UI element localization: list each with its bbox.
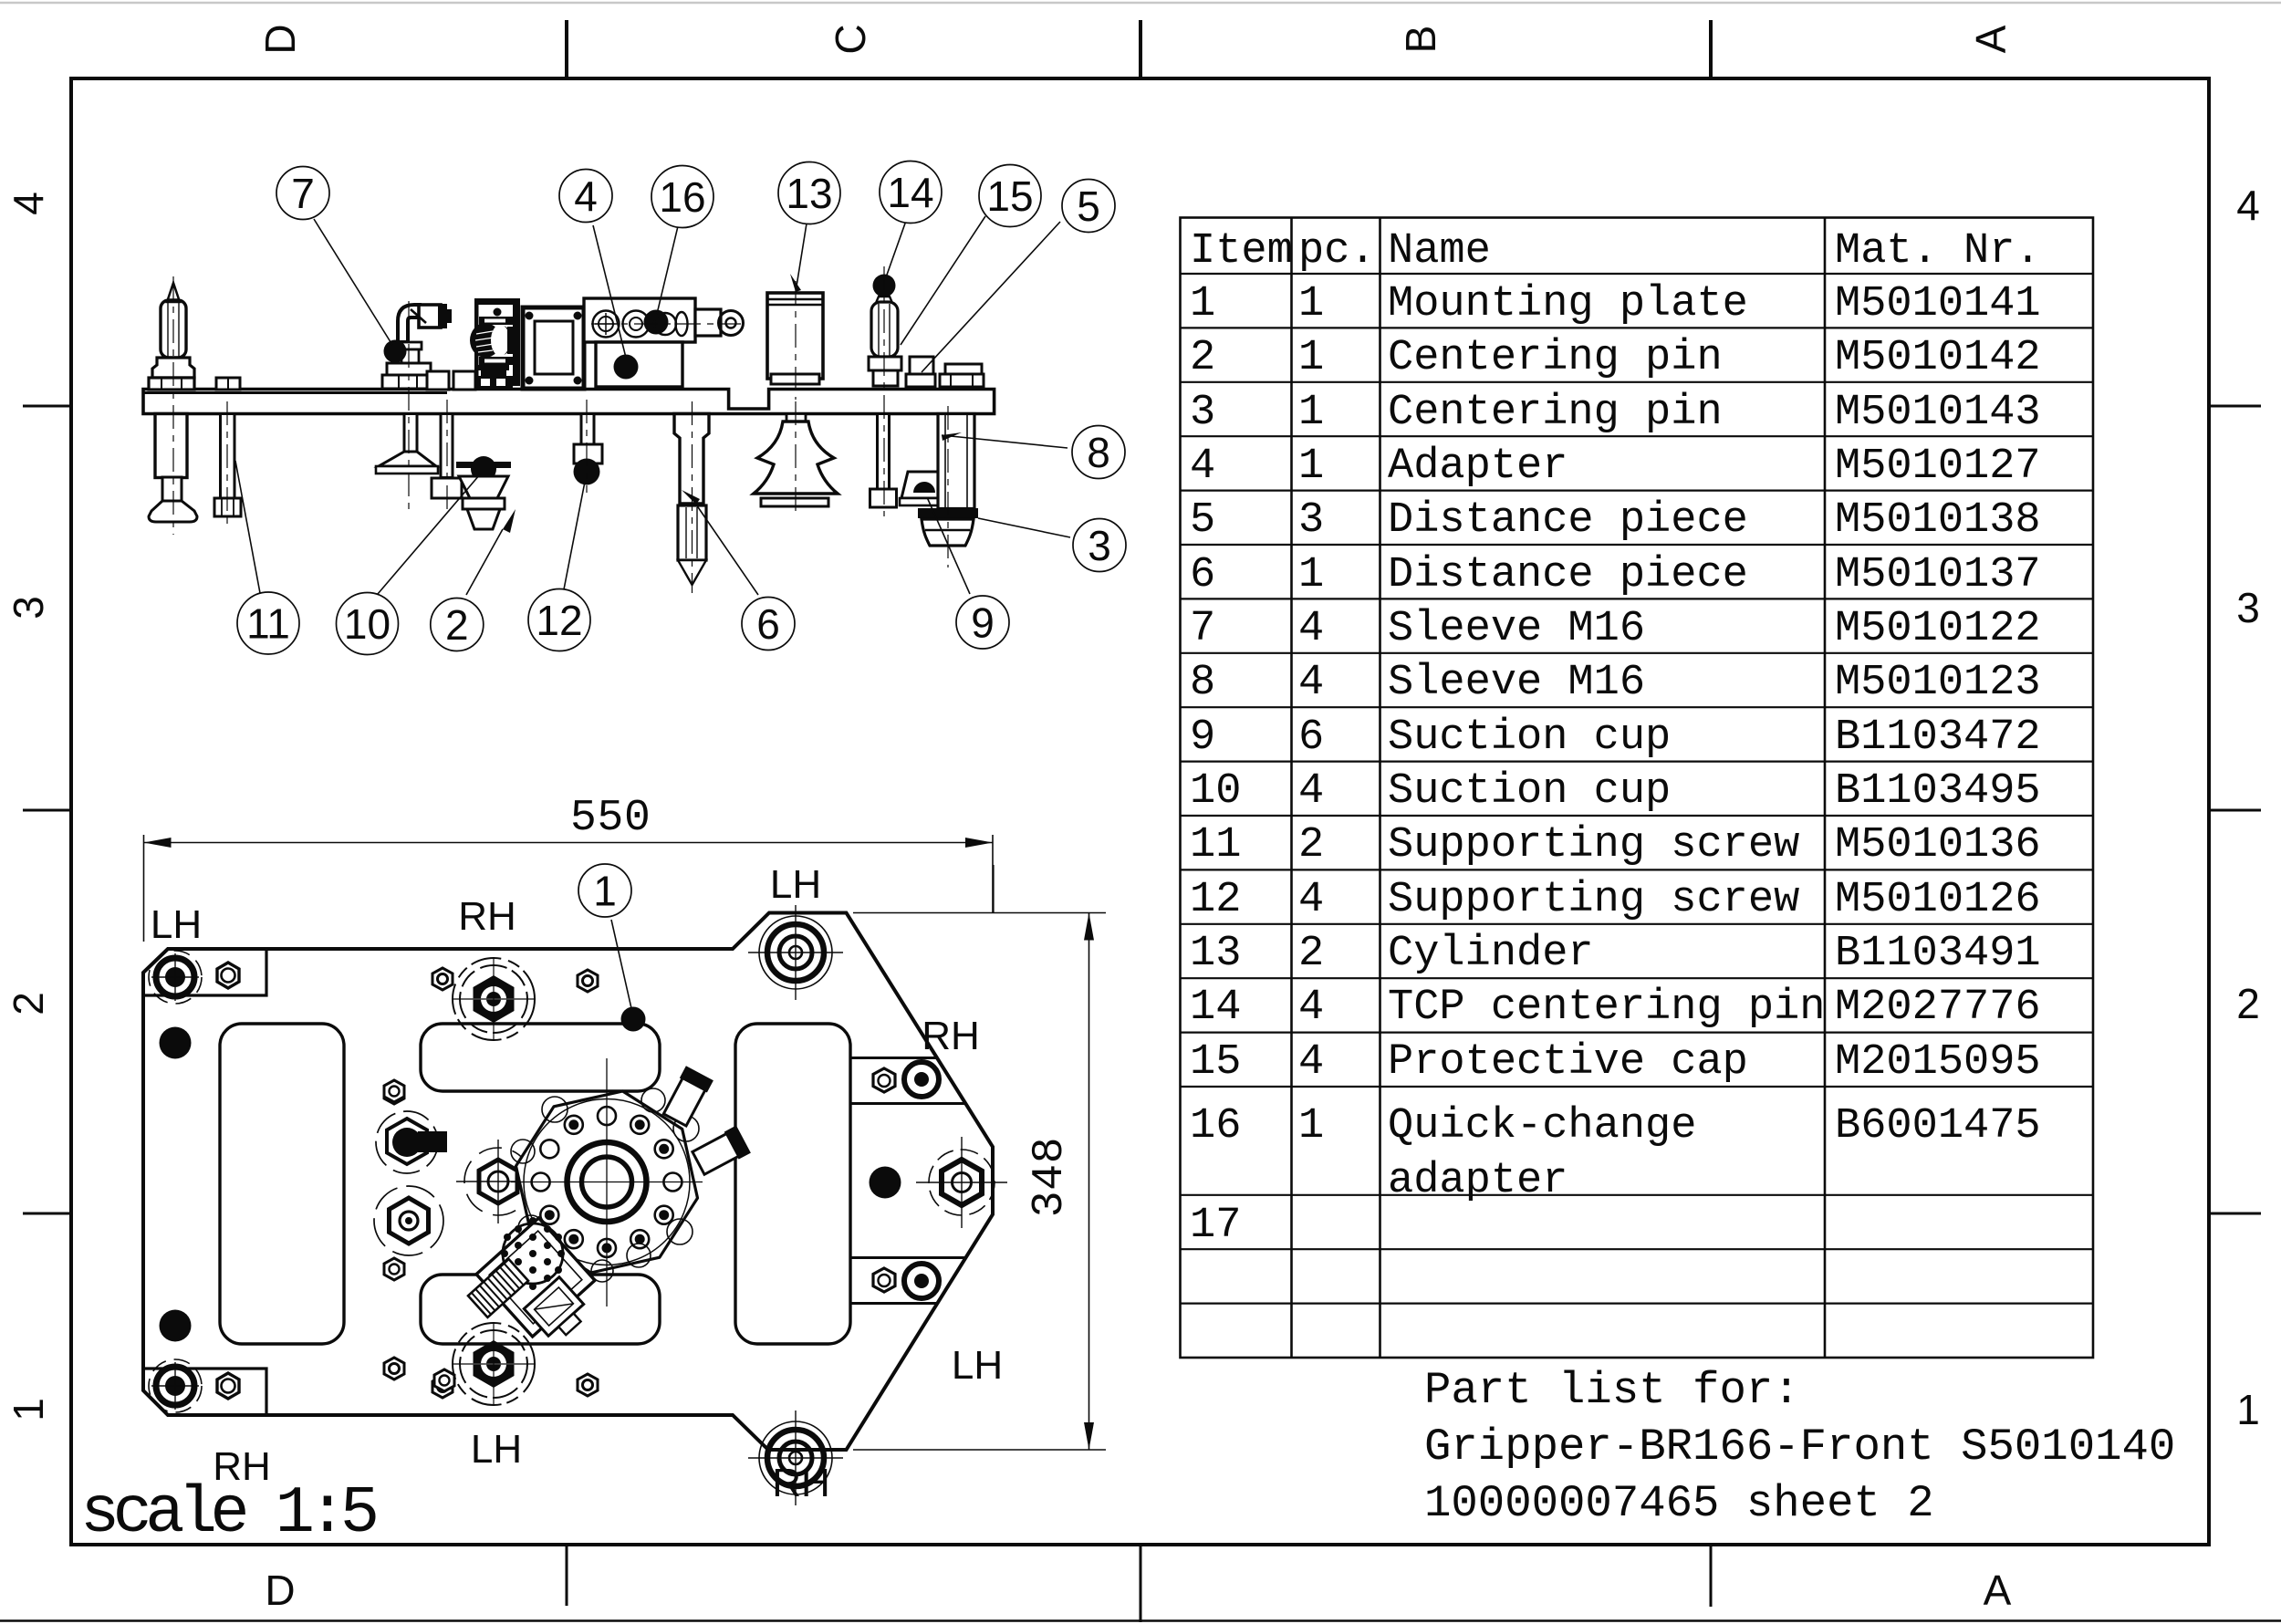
svg-text:4: 4	[1190, 442, 1215, 491]
svg-text:1: 1	[2236, 1386, 2260, 1433]
svg-text:B1103472: B1103472	[1835, 713, 2041, 762]
svg-text:3: 3	[2236, 584, 2260, 631]
svg-text:1: 1	[1298, 442, 1324, 491]
svg-text:5: 5	[1190, 496, 1215, 545]
svg-text:Sleeve M16: Sleeve M16	[1388, 659, 1645, 707]
svg-text:M5010142: M5010142	[1835, 334, 2041, 382]
svg-text:Quick-change: Quick-change	[1388, 1102, 1696, 1150]
svg-text:B6001475: B6001475	[1835, 1102, 2041, 1150]
svg-text:Mounting plate: Mounting plate	[1388, 280, 1748, 328]
svg-text:2: 2	[1298, 930, 1324, 978]
svg-text:Sleeve M16: Sleeve M16	[1388, 605, 1645, 653]
svg-text:M2015095: M2015095	[1835, 1038, 2041, 1087]
svg-text:9: 9	[971, 599, 995, 647]
svg-text:10: 10	[344, 600, 391, 648]
svg-text:6: 6	[1190, 551, 1215, 599]
svg-text:4: 4	[2236, 182, 2260, 229]
svg-text:Distance piece: Distance piece	[1388, 551, 1748, 599]
svg-text:16: 16	[659, 173, 705, 221]
svg-text:8: 8	[1087, 429, 1110, 476]
svg-text:LH: LH	[770, 862, 821, 907]
svg-text:M5010126: M5010126	[1835, 876, 2041, 924]
svg-text:C: C	[827, 24, 874, 54]
svg-text:pc.: pc.	[1298, 227, 1376, 276]
svg-text:LH: LH	[952, 1343, 1003, 1388]
svg-text:LH: LH	[471, 1427, 522, 1472]
svg-text:A: A	[1967, 25, 2015, 53]
svg-text:2: 2	[5, 992, 52, 1015]
svg-text:348: 348	[1026, 1137, 1075, 1218]
svg-text:7: 7	[1190, 605, 1215, 653]
svg-text:Protective cap: Protective cap	[1388, 1038, 1748, 1087]
svg-text:RH: RH	[213, 1444, 271, 1489]
svg-text:adapter: adapter	[1388, 1157, 1568, 1205]
svg-text:4: 4	[574, 172, 598, 220]
svg-text:1: 1	[1298, 551, 1324, 599]
svg-text:4: 4	[1298, 984, 1324, 1032]
svg-text:3: 3	[5, 596, 52, 619]
svg-text:M5010138: M5010138	[1835, 496, 2041, 545]
svg-text:M5010137: M5010137	[1835, 551, 2041, 599]
svg-text:Mat. Nr.: Mat. Nr.	[1835, 227, 2041, 276]
svg-text:10000007465 sheet 2: 10000007465 sheet 2	[1424, 1478, 1934, 1529]
svg-text:M5010136: M5010136	[1835, 821, 2041, 869]
svg-text:11: 11	[1190, 821, 1241, 869]
svg-text:B1103495: B1103495	[1835, 767, 2041, 816]
svg-text:3: 3	[1190, 389, 1215, 437]
svg-text:4: 4	[5, 192, 52, 215]
svg-text:A: A	[1984, 1567, 2012, 1614]
svg-text:M5010122: M5010122	[1835, 605, 2041, 653]
svg-text:Cylinder: Cylinder	[1388, 930, 1594, 978]
svg-text:14: 14	[1190, 984, 1241, 1032]
svg-text:6: 6	[756, 600, 780, 648]
svg-text:1: 1	[5, 1398, 52, 1421]
svg-text:B1103491: B1103491	[1835, 930, 2041, 978]
svg-text:11: 11	[246, 600, 290, 648]
svg-text:6: 6	[1298, 713, 1324, 762]
svg-text:Suction cup: Suction cup	[1388, 713, 1671, 762]
svg-text:M5010141: M5010141	[1835, 280, 2041, 328]
svg-text:17: 17	[1190, 1202, 1241, 1250]
svg-text:RH: RH	[458, 894, 516, 939]
svg-text:550: 550	[570, 794, 651, 843]
svg-text:4: 4	[1298, 605, 1324, 653]
svg-text:3: 3	[1298, 496, 1324, 545]
svg-text:13: 13	[786, 170, 832, 217]
svg-text:15: 15	[1190, 1038, 1241, 1087]
svg-text:1: 1	[1298, 1102, 1324, 1150]
svg-text:15: 15	[986, 172, 1033, 220]
svg-text:Part list for:: Part list for:	[1424, 1365, 1800, 1416]
svg-text:B: B	[1397, 26, 1444, 54]
svg-text:D: D	[256, 24, 304, 54]
svg-text:Supporting screw: Supporting screw	[1388, 821, 1799, 869]
svg-text:2: 2	[2236, 980, 2260, 1027]
svg-text:10: 10	[1190, 767, 1241, 816]
svg-text:4: 4	[1298, 876, 1324, 924]
svg-text:Suction cup: Suction cup	[1388, 767, 1671, 816]
svg-text:13: 13	[1190, 930, 1241, 978]
svg-text:M5010123: M5010123	[1835, 659, 2041, 707]
svg-text:8: 8	[1190, 659, 1215, 707]
svg-text:2: 2	[1190, 334, 1215, 382]
svg-text:1: 1	[1298, 280, 1324, 328]
svg-text:4: 4	[1298, 767, 1324, 816]
svg-text:M2027776: M2027776	[1835, 984, 2041, 1032]
svg-text:Adapter: Adapter	[1388, 442, 1568, 491]
svg-text:Centering pin: Centering pin	[1388, 389, 1723, 437]
svg-text:12: 12	[536, 597, 582, 644]
svg-text:M5010143: M5010143	[1835, 389, 2041, 437]
svg-text:Name: Name	[1388, 227, 1491, 276]
svg-text:2: 2	[1298, 821, 1324, 869]
svg-text:2: 2	[445, 601, 469, 649]
svg-text:14: 14	[887, 169, 933, 216]
svg-text:1: 1	[1190, 280, 1215, 328]
svg-text:RH: RH	[922, 1014, 980, 1058]
svg-text:RH: RH	[772, 1461, 830, 1505]
svg-text:LH: LH	[151, 902, 202, 947]
svg-text:7: 7	[291, 170, 315, 217]
svg-text:12: 12	[1190, 876, 1241, 924]
svg-text:16: 16	[1190, 1102, 1241, 1150]
svg-text:5: 5	[1077, 182, 1100, 230]
svg-text:4: 4	[1298, 659, 1324, 707]
svg-text:1: 1	[1298, 389, 1324, 437]
svg-text:Supporting screw: Supporting screw	[1388, 876, 1799, 924]
svg-text:TCP centering pin: TCP centering pin	[1388, 984, 1825, 1032]
svg-text:1: 1	[1298, 334, 1324, 382]
svg-text:1: 1	[593, 868, 617, 915]
svg-text:M5010127: M5010127	[1835, 442, 2041, 491]
svg-text:Gripper-BR166-Front S5010140: Gripper-BR166-Front S5010140	[1424, 1421, 2175, 1473]
svg-text:3: 3	[1088, 522, 1111, 569]
svg-text:Distance piece: Distance piece	[1388, 496, 1748, 545]
svg-text:4: 4	[1298, 1038, 1324, 1087]
svg-text:D: D	[265, 1567, 295, 1614]
svg-text:Centering pin: Centering pin	[1388, 334, 1723, 382]
svg-text:Item: Item	[1190, 227, 1293, 276]
svg-text:9: 9	[1190, 713, 1215, 762]
